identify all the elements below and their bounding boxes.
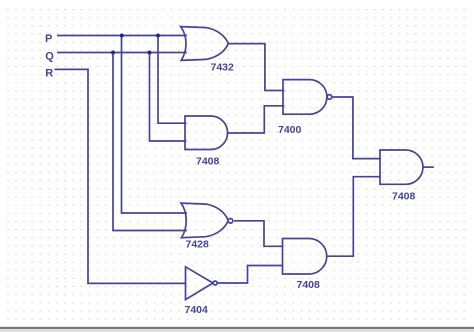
nand-gate bubble U3 — [327, 95, 332, 100]
junction P1 — [120, 34, 124, 38]
bottom bar — [0, 327, 474, 329]
wire final output — [423, 166, 433, 168]
svg-text:7432: 7432 — [211, 62, 235, 74]
junction Q2 — [148, 51, 152, 55]
wire OR 7432 output to NAND 7400 top input — [229, 44, 284, 91]
svg-text:7408: 7408 — [196, 156, 220, 168]
wire P — [58, 35, 186, 37]
svg-text:7408: 7408 — [297, 279, 321, 291]
svg-text:7404: 7404 — [185, 304, 209, 316]
svg-text:7400: 7400 — [278, 124, 302, 136]
wire Q — [58, 52, 186, 54]
svg-text:P: P — [45, 33, 52, 45]
wire R — [55, 69, 185, 283]
nor-gate bubble U4 — [228, 219, 233, 224]
svg-text:R: R — [45, 67, 53, 79]
wire P to AND 7408 top input — [158, 36, 186, 124]
and-gate U7 7408 right — [380, 150, 423, 184]
nor-gate U4 7428 — [181, 203, 228, 238]
nand-gate U3 7400 — [283, 80, 327, 115]
and-gate U6 7408 bottom — [283, 239, 327, 275]
wire NAND 7400 output to final AND top input — [332, 97, 380, 159]
wire Q to NOR 7428 bottom input — [113, 53, 186, 231]
not-gate U5 7404 — [186, 267, 214, 300]
wire bottom AND output to final AND bottom input — [327, 177, 380, 257]
svg-text:7428: 7428 — [186, 239, 210, 251]
or-gate U1 7432 — [181, 27, 229, 61]
svg-text:7408: 7408 — [392, 191, 416, 203]
wire NOT 7404 output to bottom AND bottom input — [217, 266, 282, 284]
wire Q to AND 7408 bottom input — [150, 53, 186, 142]
junction P2 — [156, 34, 160, 38]
wire AND 7408 output to NAND 7400 bottom input — [228, 106, 284, 133]
wire NOR 7428 output to bottom AND top input — [235, 221, 283, 247]
and-gate U2 7408 — [185, 116, 228, 150]
svg-text:Q: Q — [45, 50, 54, 62]
not-gate bubble U5 — [213, 281, 217, 285]
junction Q1 — [111, 51, 115, 55]
wire P to NOR 7428 top input — [122, 36, 187, 214]
